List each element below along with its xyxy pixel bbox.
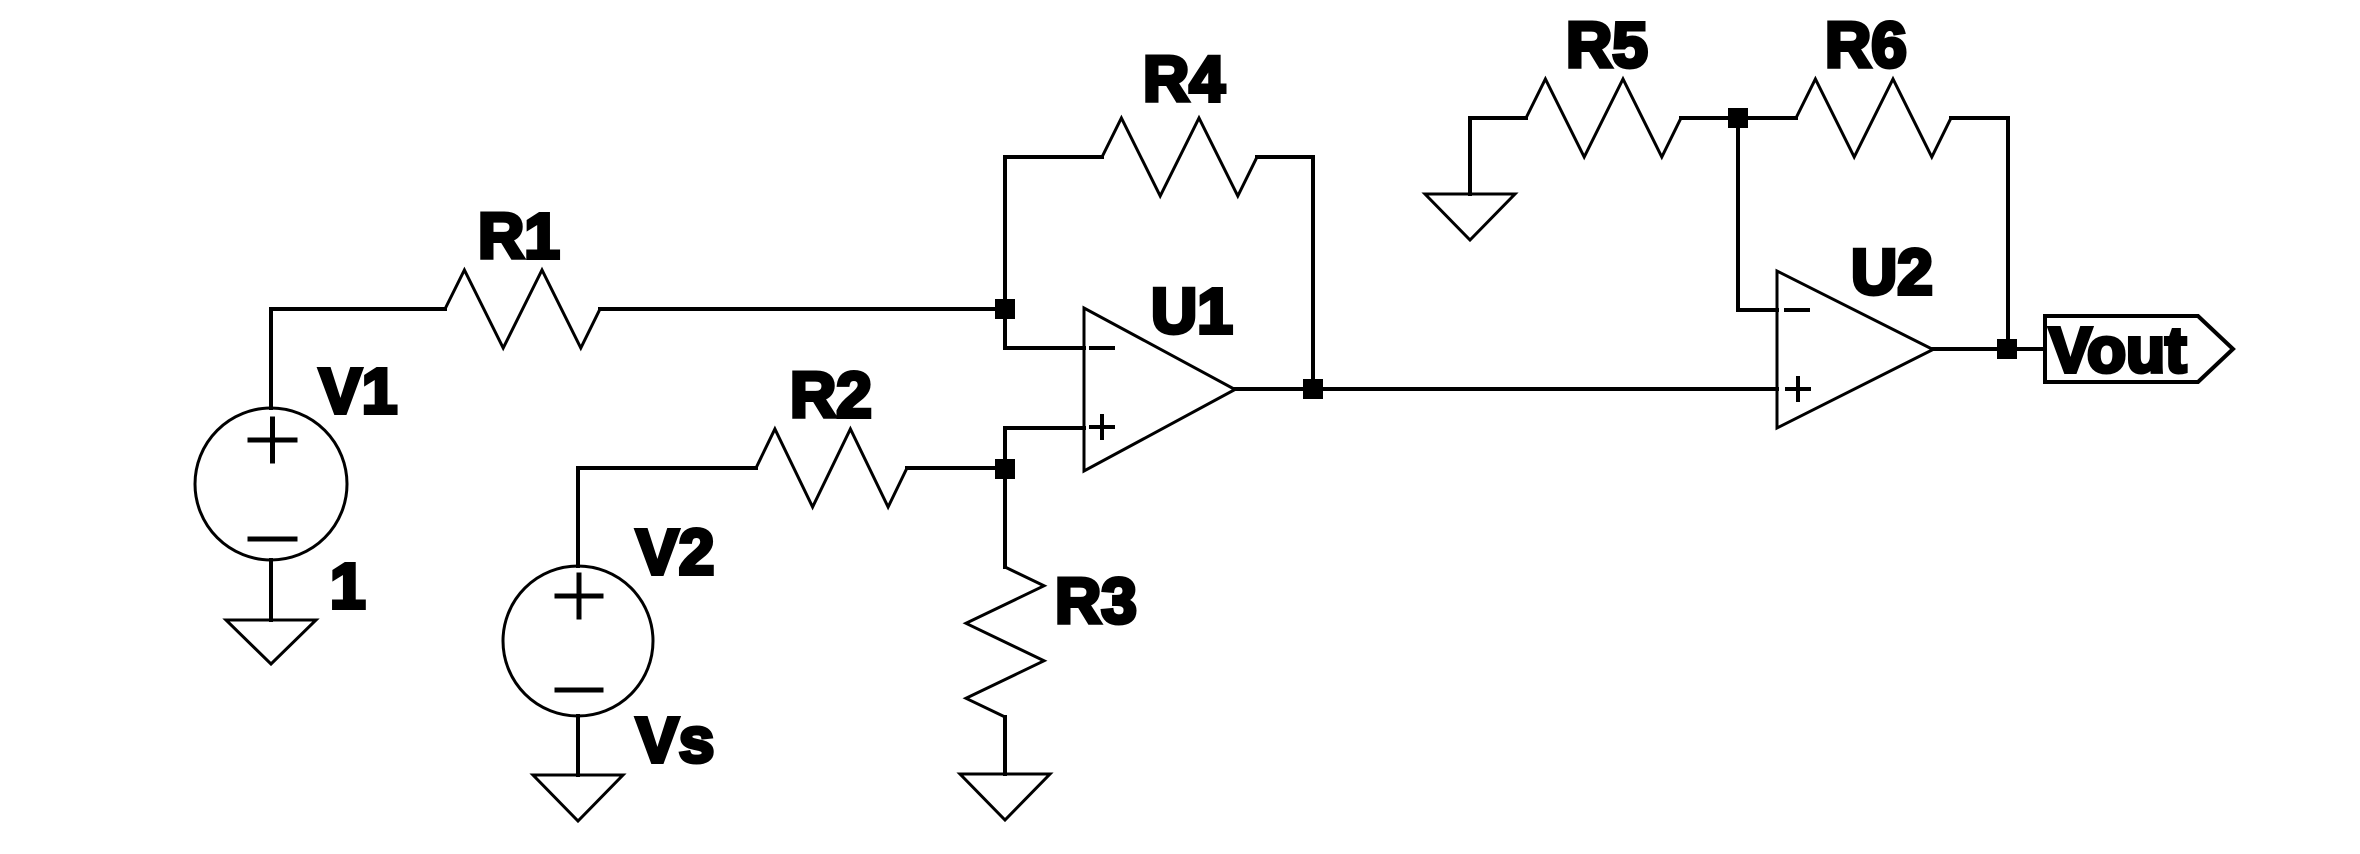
op-amp U1 <box>1084 308 1235 471</box>
wire V2 top pin <box>578 468 756 566</box>
resistor R4 <box>1102 118 1257 196</box>
resistor R1 <box>445 270 600 348</box>
wire node down to R3 <box>1003 469 1007 567</box>
svg-text:R5: R5 <box>1566 9 1648 81</box>
resistor R6 <box>1796 79 1951 157</box>
wire R5 to node <box>1681 116 1796 120</box>
node junction at U2 output <box>1997 339 2017 359</box>
node junction between R5 and R6 <box>1728 108 1748 128</box>
wire R4 right leg <box>1257 157 1313 389</box>
resistor R3 <box>966 567 1044 717</box>
svg-text:R4: R4 <box>1143 43 1225 115</box>
wire node down to U2 inverting input <box>1738 118 1777 310</box>
svg-text:V2: V2 <box>636 516 714 588</box>
resistor R5 <box>1526 79 1681 157</box>
op-amp U2 <box>1777 271 1933 428</box>
wire R3 to ground <box>1003 717 1007 774</box>
svg-text:U1: U1 <box>1151 275 1233 347</box>
wire V2 bottom pin <box>576 716 580 775</box>
svg-text:R6: R6 <box>1825 9 1907 81</box>
node junction at inverting input <box>995 299 1015 319</box>
wire R2 to non-inverting node <box>907 466 1005 470</box>
wire ground to R5 <box>1470 118 1526 194</box>
wire U1 output to U2 input <box>1235 387 1777 391</box>
wire R6 right leg down to output <box>1951 118 2008 349</box>
wire V1 bottom pin <box>269 560 273 620</box>
svg-text:Vout: Vout <box>2049 314 2186 386</box>
ground at R5 <box>1425 194 1515 240</box>
ground below V2 <box>533 775 623 821</box>
svg-text:Vs: Vs <box>636 704 714 776</box>
node junction at U1 output <box>1303 379 1323 399</box>
svg-text:V1: V1 <box>319 355 397 427</box>
net flag Vout <box>2045 316 2233 382</box>
svg-text:1: 1 <box>330 550 366 622</box>
node junction at non-inverting input <box>995 459 1015 479</box>
wire node down to U1 inverting input <box>1005 309 1084 348</box>
ground below R3 <box>960 774 1050 820</box>
svg-text:R1: R1 <box>478 200 560 272</box>
resistor R2 <box>756 429 907 507</box>
wire node up to U1 non-inverting input <box>1005 428 1084 469</box>
svg-text:U2: U2 <box>1851 236 1933 308</box>
wire U2 output <box>1933 347 2045 351</box>
wire R1 to inverting node <box>600 307 1005 311</box>
wire V1 top pin <box>269 309 273 408</box>
ground below V1 <box>226 620 316 664</box>
wire V1 to R1 <box>271 307 445 311</box>
voltage source V2 <box>503 566 653 716</box>
wire R4 left leg <box>1005 157 1102 309</box>
svg-text:R2: R2 <box>790 359 872 431</box>
svg-text:R3: R3 <box>1055 565 1137 637</box>
voltage source V1 <box>195 408 347 560</box>
